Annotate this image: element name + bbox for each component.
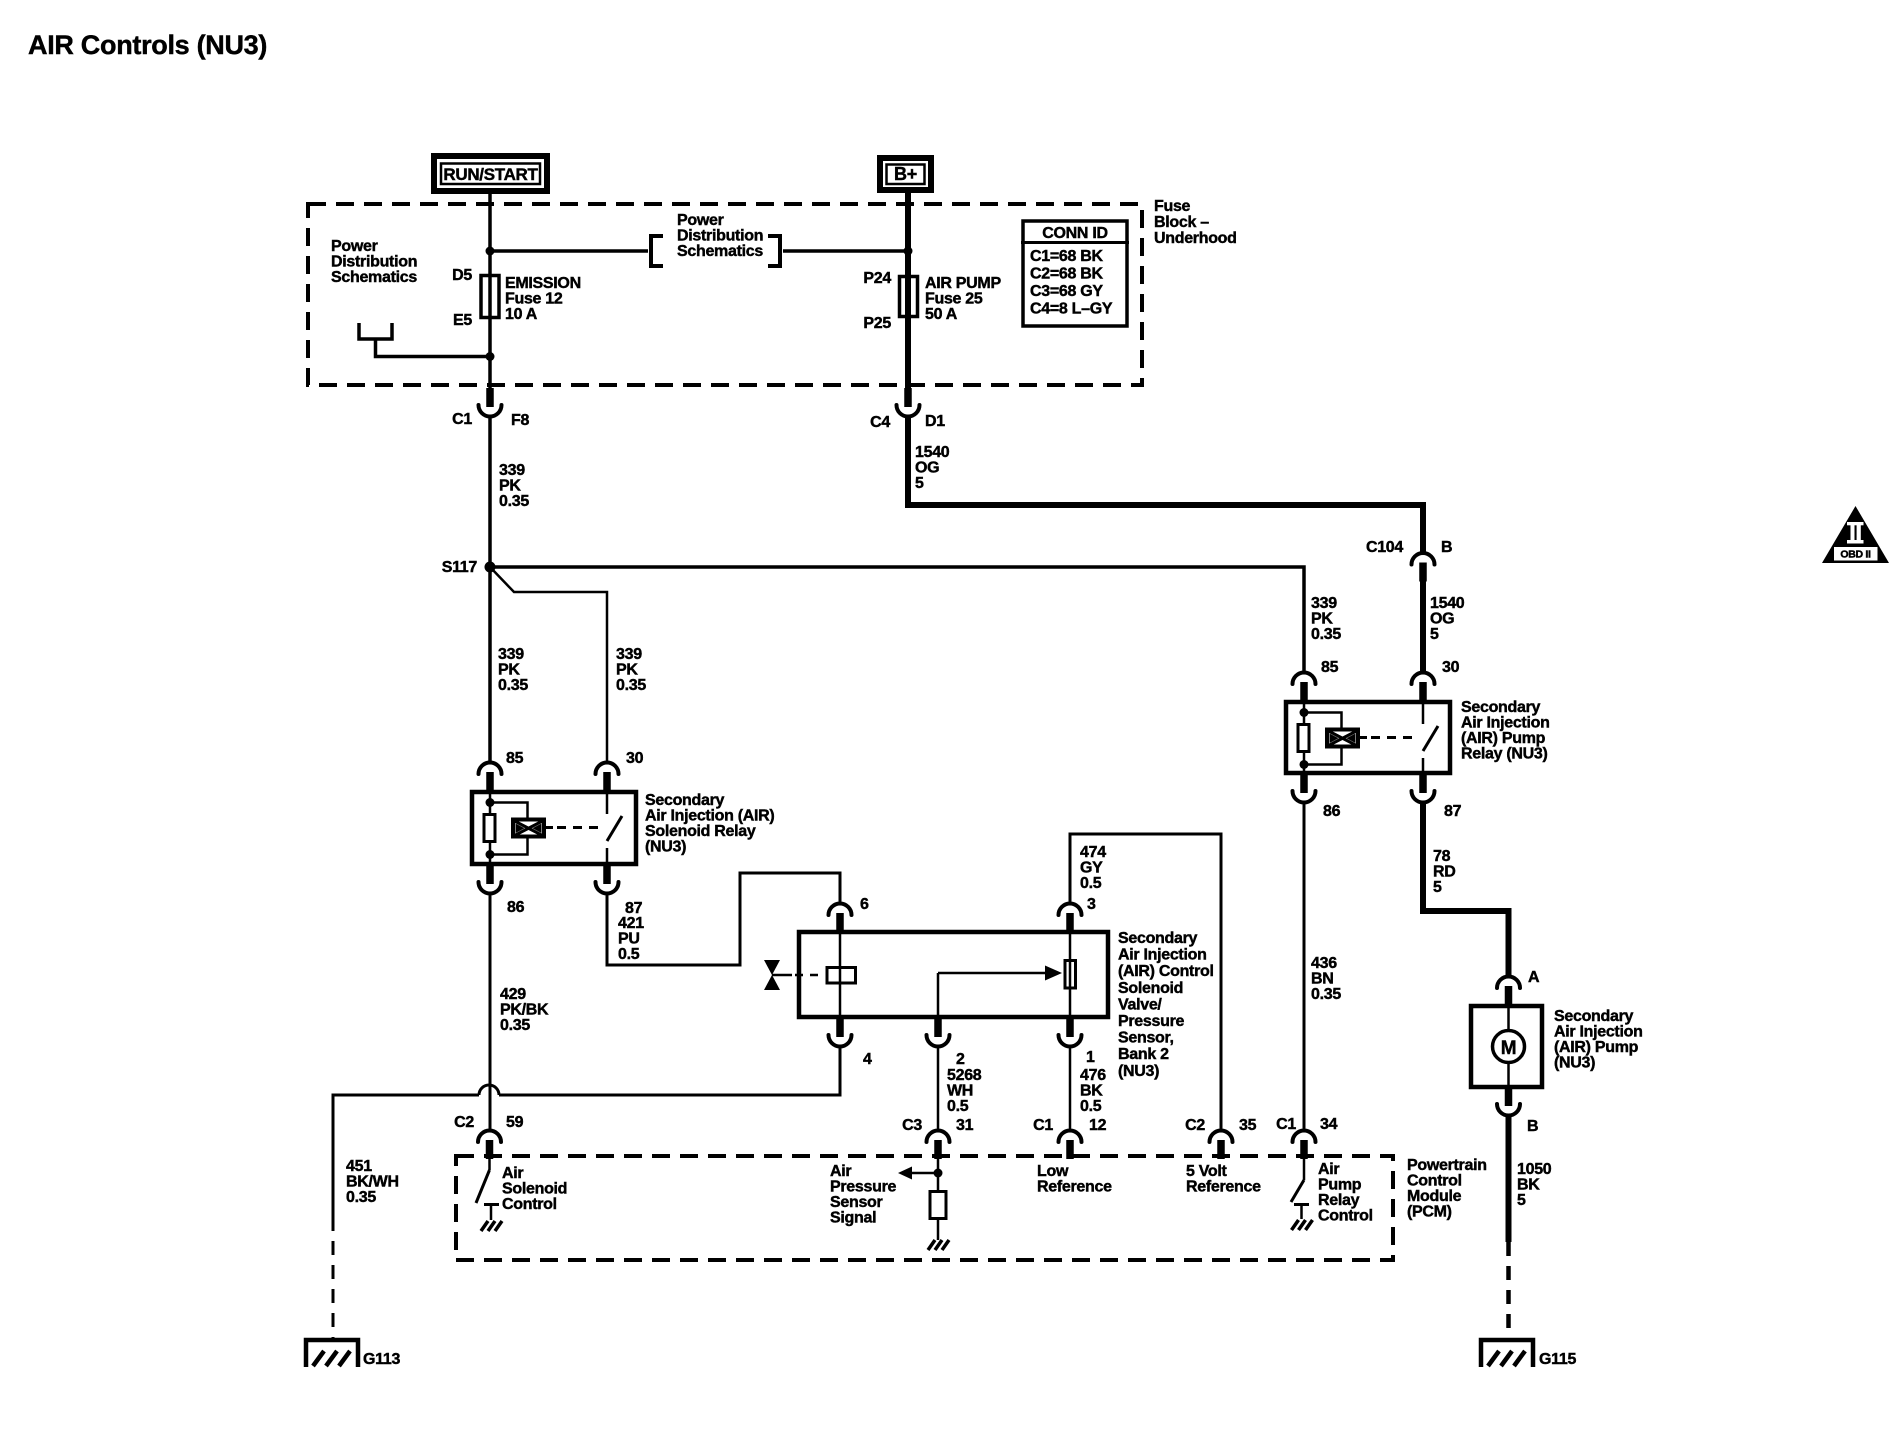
svg-text:34: 34: [1320, 1116, 1338, 1133]
svg-text:OG: OG: [1430, 611, 1454, 628]
svg-text:Air: Air: [1318, 1161, 1339, 1178]
connector pump pin B: [1497, 1087, 1538, 1135]
connector relay K2 pin 85: [1293, 659, 1339, 701]
connector relay K1 pin 87: [596, 865, 643, 917]
svg-text:BN: BN: [1311, 971, 1334, 988]
connector valve pin 3: [1059, 896, 1097, 932]
fuse block underhood dashed box: [308, 204, 1142, 385]
wire 451 dashed to ground: [332, 1217, 335, 1340]
wire bus right segment: [783, 249, 908, 253]
svg-text:0.5: 0.5: [1080, 875, 1102, 892]
svg-text:1540: 1540: [915, 444, 950, 461]
svg-text:D1: D1: [925, 413, 945, 430]
node S117 splice: [442, 559, 496, 576]
wire 5268 WH valve 2 to PCM 31: [937, 1047, 940, 1131]
wire 1050 BK dashed to G115: [1506, 1242, 1511, 1340]
PCM air solenoid control driver switch: [476, 1156, 499, 1220]
connector C4 pin D1: [870, 388, 945, 431]
svg-text:78: 78: [1433, 848, 1451, 865]
svg-text:436: 436: [1311, 955, 1337, 972]
svg-text:Block –: Block –: [1154, 214, 1209, 231]
svg-text:WH: WH: [947, 1083, 973, 1100]
wire fuse E5 down: [488, 317, 492, 390]
svg-text:Pressure: Pressure: [1118, 1013, 1184, 1030]
svg-text:AIR PUMP: AIR PUMP: [925, 275, 1001, 292]
svg-text:0.35: 0.35: [346, 1189, 376, 1206]
svg-text:3: 3: [1087, 896, 1096, 913]
label relay K2: [1461, 699, 1550, 763]
svg-text:Air Injection: Air Injection: [1554, 1024, 1643, 1041]
svg-text:(AIR) Control: (AIR) Control: [1118, 963, 1214, 980]
svg-text:Fuse 12: Fuse 12: [505, 291, 563, 308]
svg-text:Relay (NU3): Relay (NU3): [1461, 746, 1548, 763]
svg-text:D5: D5: [452, 267, 472, 284]
connector relay K1 pin 86: [479, 865, 525, 916]
wire S117 branch to left relay 30: [490, 567, 607, 762]
wire 474 GY valve 3 to PCM 35: [1070, 834, 1221, 1130]
svg-text:0.35: 0.35: [1311, 626, 1341, 643]
svg-text:5: 5: [1517, 1192, 1526, 1209]
wire 451 BK/WH valve 4 to G113: [499, 1047, 840, 1096]
connector PCM C2 pin 59: [454, 1114, 523, 1159]
relay K2 Secondary Air Injection (AIR) Pump Relay: [1286, 700, 1450, 775]
svg-text:C2=68 BK: C2=68 BK: [1030, 266, 1103, 283]
svg-text:BK: BK: [1080, 1083, 1103, 1100]
svg-text:421: 421: [618, 915, 644, 932]
label 5268 WH 0.5: [947, 1067, 982, 1115]
svg-text:C4: C4: [870, 414, 890, 431]
svg-text:87: 87: [1444, 803, 1462, 820]
wire 421 PU relay 87 to valve pin 6: [607, 873, 840, 965]
label Powertrain Control Module (PCM): [1407, 1157, 1487, 1221]
svg-text:C1=68 BK: C1=68 BK: [1030, 248, 1103, 265]
svg-text:0.5: 0.5: [618, 946, 640, 963]
svg-text:B: B: [1441, 539, 1452, 556]
svg-text:6: 6: [860, 896, 869, 913]
svg-text:Relay: Relay: [1318, 1192, 1360, 1209]
svg-text:C3=68 GY: C3=68 GY: [1030, 283, 1103, 300]
svg-text:Air: Air: [830, 1163, 851, 1180]
svg-text:Air Injection (AIR): Air Injection (AIR): [645, 808, 774, 825]
svg-text:(NU3): (NU3): [1118, 1063, 1159, 1080]
svg-text:339: 339: [498, 646, 524, 663]
PCM air pump relay control driver switch: [1291, 1156, 1309, 1219]
wire 78 RD relay K2 87 to pump A: [1423, 802, 1509, 977]
label Low Reference: [1037, 1163, 1112, 1196]
svg-text:Sensor: Sensor: [830, 1194, 883, 1211]
label 474 GY 0.5: [1080, 844, 1106, 892]
svg-text:PK/BK: PK/BK: [500, 1002, 549, 1019]
svg-text:Air Injection: Air Injection: [1461, 715, 1550, 732]
svg-text:B+: B+: [894, 164, 917, 184]
svg-text:PK: PK: [499, 478, 521, 495]
svg-text:PU: PU: [618, 931, 640, 948]
svg-text:Solenoid: Solenoid: [502, 1181, 567, 1198]
wire crossover hump: [479, 1085, 499, 1095]
svg-text:Fuse: Fuse: [1154, 198, 1191, 215]
connector valve pin 1: [1059, 1018, 1096, 1066]
svg-text:F8: F8: [511, 412, 529, 429]
svg-text:(PCM): (PCM): [1407, 1204, 1452, 1221]
ground G115: [1481, 1340, 1576, 1368]
svg-text:B: B: [1527, 1118, 1538, 1135]
svg-text:0.35: 0.35: [616, 677, 646, 694]
label Fuse Block - Underhood: [1154, 198, 1237, 247]
svg-text:Power: Power: [677, 212, 724, 229]
svg-text:339: 339: [616, 646, 642, 663]
wire 429 PK/BK relay 86 to PCM 59: [489, 894, 492, 1131]
wire fuse P25 down: [905, 316, 911, 390]
svg-text:C2: C2: [454, 1114, 474, 1131]
label 5 Volt Reference: [1186, 1163, 1261, 1196]
connector PCM C2 pin 35: [1185, 1117, 1256, 1159]
svg-text:OG: OG: [915, 460, 939, 477]
ground (internal, air pump relay control): [1292, 1220, 1313, 1230]
svg-text:Reference: Reference: [1037, 1179, 1112, 1196]
label 476 BK 0.5: [1080, 1067, 1106, 1115]
label relay K1: [645, 792, 774, 856]
svg-text:451: 451: [346, 1158, 372, 1175]
svg-text:M: M: [1501, 1038, 1517, 1059]
wire 1540 OG from C4: [908, 417, 1423, 554]
svg-text:BK: BK: [1517, 1177, 1540, 1194]
svg-text:5: 5: [1430, 626, 1439, 643]
svg-text:Secondary: Secondary: [1461, 699, 1541, 716]
label AIR pump: [1554, 1008, 1643, 1072]
node bus/B+ junction: [904, 247, 913, 256]
svg-text:Control: Control: [1407, 1173, 1462, 1190]
connector valve pin 6: [829, 896, 870, 932]
svg-text:85: 85: [1321, 659, 1339, 676]
AIR pump motor M1: [1471, 1004, 1542, 1089]
svg-text:C4=8 L–GY: C4=8 L–GY: [1030, 301, 1113, 318]
svg-text:85: 85: [506, 750, 524, 767]
svg-text:Power: Power: [331, 238, 378, 255]
svg-text:5: 5: [915, 475, 924, 492]
power symbol RUN/START: [434, 156, 547, 191]
svg-text:Underhood: Underhood: [1154, 230, 1237, 247]
svg-text:Signal: Signal: [830, 1210, 876, 1227]
wire B+ to fuse P24: [905, 190, 911, 317]
svg-text:Powertrain: Powertrain: [1407, 1157, 1487, 1174]
label 78 RD 5: [1433, 848, 1456, 896]
svg-text:2: 2: [956, 1051, 965, 1068]
svg-text:AIR Controls (NU3): AIR Controls (NU3): [28, 30, 267, 60]
svg-text:0.35: 0.35: [498, 677, 528, 694]
svg-text:P25: P25: [863, 315, 891, 332]
svg-text:1050: 1050: [1517, 1161, 1552, 1178]
wire S117 trunk to right relay 85: [490, 567, 1304, 673]
label Power Distribution Schematics (middle): [677, 212, 763, 260]
svg-text:476: 476: [1080, 1067, 1106, 1084]
connector relay K2 pin 30: [1412, 659, 1460, 701]
connector relay K1 pin 85: [479, 750, 524, 791]
svg-text:C104: C104: [1366, 539, 1403, 556]
svg-text:429: 429: [500, 986, 526, 1003]
label 339 PK 0.35 (left branch 85): [498, 646, 528, 694]
svg-text:1: 1: [1086, 1049, 1095, 1066]
svg-text:A: A: [1528, 969, 1540, 986]
svg-text:Control: Control: [502, 1196, 557, 1213]
label 1540 OG 5 (upper): [915, 444, 950, 492]
connector PCM C3 pin 31: [902, 1117, 973, 1159]
label Power Distribution Schematics (left): [331, 238, 417, 286]
svg-text:4: 4: [863, 1051, 872, 1068]
svg-text:BK/WH: BK/WH: [346, 1174, 399, 1191]
connector C1 pin F8: [452, 388, 529, 429]
label Air Pressure Sensor Signal: [830, 1163, 896, 1227]
svg-text:C2: C2: [1185, 1117, 1205, 1134]
svg-text:Pressure: Pressure: [830, 1179, 896, 1196]
fuse F25 AIR PUMP: [863, 270, 1001, 332]
wire 476 BK valve 1 to PCM 12: [1069, 1047, 1072, 1131]
svg-text:(AIR) Pump: (AIR) Pump: [1461, 730, 1546, 747]
svg-text:10 A: 10 A: [505, 306, 538, 323]
label Air Solenoid Control: [502, 1165, 567, 1213]
svg-text:1540: 1540: [1430, 595, 1465, 612]
svg-text:PK: PK: [616, 662, 638, 679]
svg-text:Pump: Pump: [1318, 1177, 1362, 1194]
wire 1050 BK pump B down: [1506, 1115, 1512, 1242]
svg-text:Secondary: Secondary: [645, 792, 725, 809]
connector relay K2 pin 86: [1293, 774, 1341, 820]
connector PCM C1 pin 34: [1276, 1116, 1337, 1159]
label 1050 BK 5: [1517, 1161, 1552, 1209]
svg-text:Schematics: Schematics: [331, 269, 417, 286]
svg-text:86: 86: [507, 899, 525, 916]
svg-text:RUN/START: RUN/START: [443, 165, 538, 184]
connector valve pin 2: [927, 1018, 966, 1068]
svg-text:339: 339: [1311, 595, 1337, 612]
label 421 PU 0.5: [618, 915, 644, 963]
PCM dashed box: [456, 1156, 1393, 1260]
svg-text:5: 5: [1433, 879, 1442, 896]
wire bus RUN/START to B+ left segment: [490, 249, 648, 253]
wire RUN/START to fuse D5: [488, 191, 492, 318]
svg-text:EMISSION: EMISSION: [505, 275, 581, 292]
svg-text:Schematics: Schematics: [677, 243, 763, 260]
off-page bracket right: [768, 236, 780, 266]
connector valve pin 4: [829, 1018, 873, 1068]
PCM air pressure sensor signal input: [898, 1156, 946, 1240]
svg-text:31: 31: [956, 1117, 974, 1134]
svg-text:30: 30: [626, 750, 644, 767]
label valve assembly: [1118, 930, 1214, 1080]
svg-text:0.35: 0.35: [500, 1017, 530, 1034]
svg-text:Bank 2: Bank 2: [1118, 1046, 1169, 1063]
svg-text:OBD II: OBD II: [1840, 549, 1871, 561]
wire 451 continues left: [333, 1095, 479, 1217]
ground (internal, air solenoid control): [481, 1221, 502, 1231]
svg-text:C1: C1: [1033, 1117, 1053, 1134]
OBD II symbol: [1822, 506, 1889, 563]
svg-text:Fuse 25: Fuse 25: [925, 291, 983, 308]
svg-text:GY: GY: [1080, 860, 1103, 877]
svg-text:0.5: 0.5: [1080, 1098, 1102, 1115]
svg-text:C3: C3: [902, 1117, 922, 1134]
svg-text:0.35: 0.35: [499, 493, 529, 510]
svg-text:(NU3): (NU3): [645, 839, 686, 856]
wire 1540 OG to relay 30: [1420, 580, 1426, 673]
connector relay K2 pin 87: [1412, 774, 1462, 820]
svg-text:339: 339: [499, 462, 525, 479]
vacuum valve symbol: [764, 960, 825, 990]
svg-text:Air Injection: Air Injection: [1118, 947, 1207, 964]
CONN ID table: [1021, 221, 1129, 326]
svg-text:Distribution: Distribution: [331, 254, 417, 271]
label 339 PK 0.35 (branch 30): [616, 646, 646, 694]
svg-text:CONN ID: CONN ID: [1042, 225, 1107, 242]
svg-text:0.35: 0.35: [1311, 986, 1341, 1003]
svg-text:Solenoid: Solenoid: [1118, 980, 1183, 997]
svg-text:Secondary: Secondary: [1554, 1008, 1634, 1025]
node bus/RUN-START junction: [486, 247, 495, 256]
svg-text:5 Volt: 5 Volt: [1186, 1163, 1228, 1180]
label 339 PK 0.35 (right relay): [1311, 595, 1341, 643]
svg-text:474: 474: [1080, 844, 1106, 861]
svg-text:5268: 5268: [947, 1067, 982, 1084]
valve: Secondary Air Injection (AIR) Control Solenoid Valve/Pressure Sensor: [799, 930, 1108, 1019]
svg-text:Module: Module: [1407, 1188, 1462, 1205]
relay K1 Secondary Air Injection (AIR) Solenoid Relay: [472, 790, 636, 866]
svg-text:S117: S117: [442, 559, 478, 576]
svg-text:Air: Air: [502, 1165, 523, 1182]
label 436 BN 0.35: [1311, 955, 1341, 1003]
svg-text:P24: P24: [863, 270, 891, 287]
svg-text:12: 12: [1089, 1117, 1107, 1134]
tap symbol (power distribution stub): [359, 323, 490, 357]
label 339 PK 0.35 (upper): [499, 462, 529, 510]
svg-text:(AIR) Pump: (AIR) Pump: [1554, 1039, 1639, 1056]
node E5 tap junction: [486, 352, 495, 361]
svg-text:Solenoid Relay: Solenoid Relay: [645, 823, 756, 840]
fuse F12 EMISSION: [452, 267, 581, 329]
svg-text:50 A: 50 A: [925, 306, 958, 323]
svg-text:59: 59: [506, 1114, 524, 1131]
label Air Pump Relay Control: [1318, 1161, 1373, 1225]
power symbol B+: [880, 158, 931, 190]
wire 339 PK to S117: [488, 417, 492, 763]
svg-text:Low: Low: [1037, 1163, 1069, 1180]
connector C104 pin B: [1366, 539, 1452, 582]
svg-text:PK: PK: [1311, 611, 1333, 628]
connector relay K1 pin 30: [596, 750, 644, 791]
svg-text:86: 86: [1323, 803, 1341, 820]
svg-text:G113: G113: [363, 1351, 400, 1368]
svg-text:35: 35: [1239, 1117, 1257, 1134]
connector pump pin A: [1497, 969, 1540, 1005]
svg-text:E5: E5: [453, 312, 472, 329]
svg-text:30: 30: [1442, 659, 1460, 676]
svg-text:Control: Control: [1318, 1208, 1373, 1225]
wire 436 BN relay K2 86 to PCM 34: [1303, 803, 1306, 1131]
label 429 PK/BK 0.35: [500, 986, 549, 1034]
svg-text:C1: C1: [452, 411, 472, 428]
svg-text:0.5: 0.5: [947, 1098, 969, 1115]
svg-text:Distribution: Distribution: [677, 228, 763, 245]
svg-text:PK: PK: [498, 662, 520, 679]
svg-text:Secondary: Secondary: [1118, 930, 1198, 947]
connector PCM C1 pin 12: [1033, 1117, 1106, 1159]
svg-text:C1: C1: [1276, 1116, 1296, 1133]
label 1540 OG 5 (lower): [1430, 595, 1465, 643]
svg-text:Sensor,: Sensor,: [1118, 1030, 1174, 1047]
svg-text:(NU3): (NU3): [1554, 1055, 1595, 1072]
svg-text:G115: G115: [1539, 1351, 1576, 1368]
ground (internal, sensor signal): [928, 1240, 949, 1250]
off-page bracket left: [651, 236, 663, 266]
svg-text:RD: RD: [1433, 864, 1456, 881]
ground G113: [306, 1340, 400, 1368]
svg-text:Reference: Reference: [1186, 1179, 1261, 1196]
svg-text:Valve/: Valve/: [1118, 996, 1162, 1013]
label 451 BK/WH 0.35: [346, 1158, 399, 1206]
